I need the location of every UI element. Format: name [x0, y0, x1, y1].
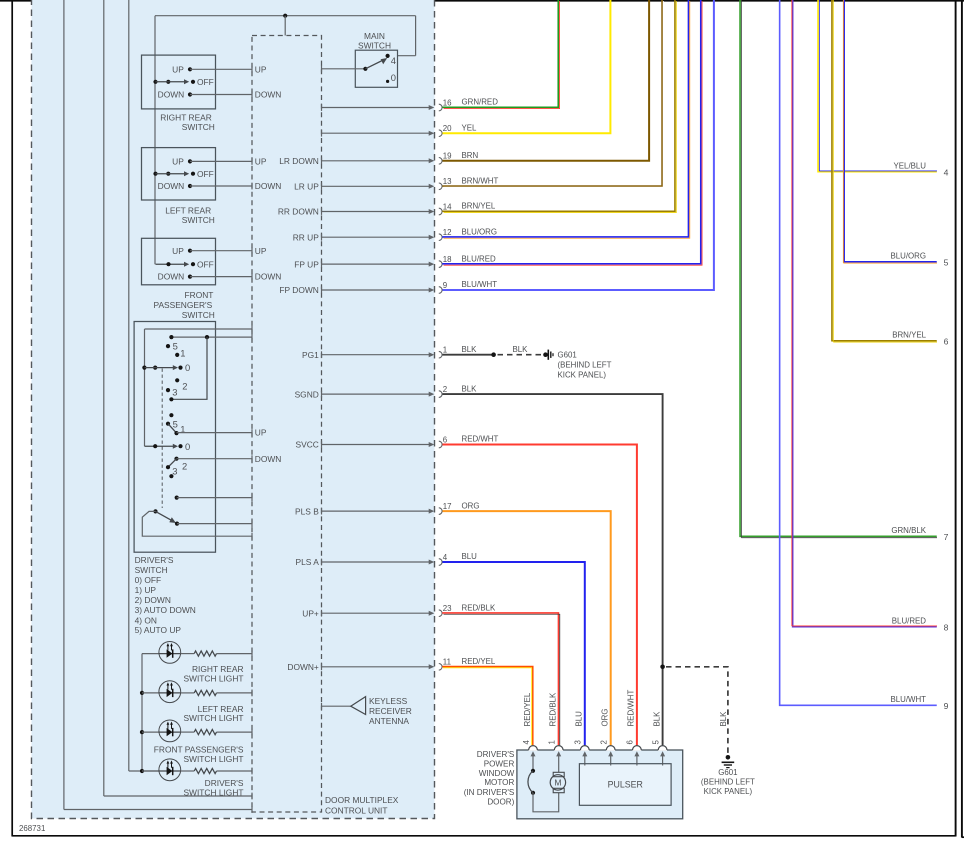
wire LED to resistor (left rear) [181, 692, 195, 694]
svg-text:18: 18 [443, 255, 452, 264]
svg-text:5: 5 [944, 258, 949, 268]
svg-text:FP UP: FP UP [294, 259, 319, 269]
svg-text:268731: 268731 [19, 824, 45, 833]
door multiplex control unit (dashed box) [252, 36, 322, 813]
svg-text:DOWN+: DOWN+ [287, 662, 319, 672]
svg-text:RED/BLK: RED/BLK [462, 603, 497, 612]
stack2 arm 2-3 [168, 459, 177, 468]
pulser toggle arm [156, 511, 173, 521]
svg-text:RED/WHT: RED/WHT [627, 690, 636, 727]
svg-text:PG1: PG1 [302, 350, 319, 360]
svg-text:DOWN: DOWN [158, 272, 185, 282]
main switch pivot dot [363, 67, 367, 71]
svg-text:BRN: BRN [462, 151, 479, 160]
stack1 wiper 0 [142, 366, 146, 370]
wire stub from top feed into control unit [284, 16, 286, 36]
svg-text:KEYLESS: KEYLESS [369, 696, 408, 706]
wire control unit to main switch [322, 68, 366, 70]
resistor right rear switch light [194, 651, 216, 656]
junction dot (pin 1) [491, 352, 496, 357]
svg-text:UP: UP [172, 64, 184, 74]
svg-text:11: 11 [443, 658, 451, 667]
svg-text:SWITCH: SWITCH [182, 215, 215, 225]
driver's power window motor box [517, 750, 683, 819]
bus wire B (second vertical to bottom pin) [103, 0, 105, 796]
LED right rear switch light [159, 642, 181, 664]
svg-text:BLU/WHT: BLU/WHT [890, 695, 926, 704]
wire YEL/BLU (connector 4) [818, 0, 937, 172]
stack2 bottom contact [169, 474, 173, 478]
keyless receiver antenna symbol [351, 697, 366, 715]
wire BLU/RED (connector 8) [793, 0, 937, 627]
svg-text:MOTOR: MOTOR [484, 778, 514, 787]
svg-text:9: 9 [944, 701, 949, 711]
front passenger's switch box [142, 238, 216, 284]
svg-text:RED/BLK: RED/BLK [549, 692, 558, 727]
svg-text:3) AUTO DOWN: 3) AUTO DOWN [135, 605, 196, 615]
svg-text:BLU/RED: BLU/RED [892, 617, 927, 626]
front passenger switch wiper [156, 263, 186, 265]
svg-text:2: 2 [182, 460, 187, 471]
bus wire C (third vertical to switch lights) [128, 0, 130, 771]
motor box entry arrow at x=558.7 [558, 754, 560, 766]
LED left rear switch light [159, 681, 181, 703]
motor box connector bump at x=610.7 [606, 746, 615, 751]
svg-text:G601: G601 [718, 768, 737, 777]
svg-text:SWITCH LIGHT: SWITCH LIGHT [183, 713, 243, 723]
svg-text:4: 4 [391, 55, 396, 66]
svg-text:ANTENNA: ANTENNA [369, 716, 409, 726]
svg-text:5: 5 [651, 740, 660, 745]
wire RED/YEL (pin 11) [442, 667, 533, 745]
motor box entry arrow at x=584.8 [584, 754, 586, 766]
wire into pulser at x=662.6 [662, 764, 664, 766]
svg-text:WINDOW: WINDOW [479, 769, 515, 778]
wire right-rear DOWN to control unit [190, 94, 252, 96]
svg-text:4: 4 [443, 553, 448, 562]
driver's switch feed wire (top) [145, 328, 253, 330]
motor M symbol [558, 766, 560, 773]
svg-text:FP DOWN: FP DOWN [279, 285, 318, 295]
stack2 contact 5 [166, 422, 170, 426]
svg-text:RED/WHT: RED/WHT [462, 435, 499, 444]
svg-text:BLU/WHT: BLU/WHT [462, 280, 498, 289]
svg-text:BRN/WHT: BRN/WHT [462, 177, 499, 186]
svg-text:SWITCH: SWITCH [358, 40, 391, 50]
motor box entry arrow at x=610.7 [610, 754, 612, 766]
driver's door boundary (blue dashed box) [32, 0, 435, 819]
svg-text:DOOR): DOOR) [487, 798, 514, 807]
ground G601 lower (behind left kick panel) [726, 755, 731, 760]
svg-text:RR UP: RR UP [293, 232, 319, 242]
svg-text:2: 2 [182, 381, 187, 392]
svg-text:BLU/ORG: BLU/ORG [462, 227, 498, 236]
pulser switch top contact wire [175, 496, 179, 500]
wire resistor to control unit (driver's) [217, 770, 253, 772]
wire LED to resistor (driver's) [181, 770, 195, 772]
wire BLU/WHT (connector 9) [780, 0, 937, 705]
pin 6 SVCC [321, 441, 323, 448]
top feed wire [155, 15, 416, 17]
svg-text:(BEHIND LEFT: (BEHIND LEFT [558, 361, 612, 370]
motor position switch wire [532, 766, 534, 771]
svg-text:RED/YEL: RED/YEL [523, 692, 532, 726]
svg-text:2) DOWN: 2) DOWN [135, 595, 171, 605]
svg-text:6: 6 [944, 337, 949, 347]
svg-text:BLK: BLK [719, 711, 728, 727]
motor box entry arrow at x=636.9 [636, 754, 638, 766]
svg-text:KICK PANEL): KICK PANEL) [704, 787, 753, 796]
driver's switch selector dashed line [161, 369, 163, 509]
wire BLK (pin 1) [443, 354, 494, 356]
bus wire A (left vertical to bottom pin) [63, 0, 65, 810]
wire front-passenger DOWN to control unit [190, 276, 252, 278]
svg-text:POWER: POWER [484, 759, 515, 768]
svg-text:PLS A: PLS A [296, 557, 320, 567]
svg-text:OFF: OFF [197, 169, 214, 179]
wire BRN/WHT (pin 13) [442, 0, 662, 186]
svg-text:20: 20 [443, 124, 452, 133]
svg-text:1: 1 [443, 346, 447, 355]
driver's switch box [134, 322, 215, 553]
pin 2 SGND [321, 391, 323, 398]
svg-text:UP: UP [255, 157, 267, 167]
svg-text:19: 19 [443, 152, 452, 161]
pulser toggle contact wire [175, 522, 179, 526]
wire resistor to control unit (left rear) [217, 692, 253, 694]
svg-text:RECEIVER: RECEIVER [369, 706, 412, 716]
pin 11 DOWN+ [321, 663, 323, 670]
svg-text:3: 3 [172, 387, 177, 398]
wire into pulser at x=610.7 [610, 764, 612, 766]
svg-text:(BEHIND LEFT: (BEHIND LEFT [701, 777, 755, 786]
svg-text:1: 1 [180, 347, 185, 358]
motor box entry arrow at x=662.6 [662, 754, 664, 766]
wire LED to resistor (front passenger's) [181, 731, 195, 733]
svg-text:LR DOWN: LR DOWN [279, 156, 319, 166]
svg-text:DOWN: DOWN [255, 90, 282, 100]
wire into pulser at x=636.9 [636, 764, 638, 766]
svg-text:RED/YEL: RED/YEL [462, 657, 496, 666]
stack1 contact 5 [166, 344, 170, 348]
stack2 top contact [169, 413, 173, 417]
wire YEL (pin 20) [443, 0, 611, 133]
pin 13 LR UP [321, 183, 323, 190]
svg-text:14: 14 [443, 202, 452, 211]
dashed BLK ground wire [498, 354, 544, 356]
svg-text:DOWN: DOWN [255, 454, 282, 464]
pulser box [579, 764, 671, 806]
resistor driver's switch light [194, 768, 216, 773]
svg-text:G601: G601 [558, 351, 577, 360]
svg-text:OFF: OFF [197, 259, 214, 269]
svg-text:5: 5 [173, 418, 178, 429]
svg-text:6: 6 [443, 435, 448, 444]
wire BRN (pin 19) [443, 0, 650, 161]
svg-text:(IN DRIVER'S: (IN DRIVER'S [464, 788, 515, 797]
dashed BLK wire to G601 [666, 667, 728, 754]
svg-text:DOWN: DOWN [255, 272, 282, 282]
svg-text:BLU/ORG: BLU/ORG [890, 252, 926, 261]
main switch contact 0 [386, 80, 389, 83]
junction dot on top feed [283, 14, 287, 18]
switch light bus vertical [141, 654, 143, 771]
motor box connector bump at x=533 [529, 746, 538, 751]
svg-text:2: 2 [443, 385, 447, 394]
svg-text:6: 6 [626, 740, 635, 745]
wire right-rear UP to control unit [190, 68, 252, 70]
wire BLU/WHT (pin 9) [443, 0, 714, 290]
driver's switch stack1 U-link [171, 337, 207, 399]
wire GRN/BLK (connector 7) [740, 0, 937, 536]
stack2 wiper 0 [145, 445, 175, 447]
pin 18 FP UP [321, 261, 323, 268]
svg-text:SWITCH: SWITCH [135, 565, 168, 575]
svg-text:M: M [554, 778, 561, 788]
wire RED/WHT (pin 6) [443, 445, 637, 746]
svg-text:SVCC: SVCC [296, 440, 319, 450]
pin 16 [321, 104, 323, 111]
border frame [0, 0, 964, 2]
wire BLU/RED (pin 18) [442, 0, 701, 264]
pulser toggle pivot [153, 509, 157, 513]
wire GRN/RED (pin 16) [442, 0, 558, 107]
motor box connector bump at x=636.9 [633, 746, 642, 751]
wire BLK (pin 2 SGND) [443, 394, 663, 745]
svg-text:YEL: YEL [462, 123, 478, 132]
svg-text:SWITCH: SWITCH [182, 122, 215, 132]
svg-text:KICK PANEL): KICK PANEL) [558, 371, 607, 380]
wire BRN/YEL (connector 6) [832, 0, 937, 341]
svg-text:PLS B: PLS B [295, 506, 319, 516]
pin 20 [321, 130, 323, 137]
svg-text:SWITCH LIGHT: SWITCH LIGHT [183, 754, 243, 764]
svg-text:1: 1 [548, 740, 557, 744]
svg-text:SWITCH LIGHT: SWITCH LIGHT [183, 788, 243, 798]
wire ORG (pin 17) [443, 511, 611, 745]
svg-text:17: 17 [443, 502, 452, 511]
resistor left rear switch light [194, 690, 216, 695]
left rear switch box [142, 148, 216, 200]
svg-text:BLU: BLU [462, 552, 478, 561]
svg-text:UP: UP [255, 246, 267, 256]
svg-text:0: 0 [185, 362, 190, 373]
right rear switch wiper [153, 80, 157, 84]
wire to left rear switch light [142, 692, 159, 694]
svg-text:GRN/BLK: GRN/BLK [891, 526, 926, 535]
wire BRN/YEL (pin 14) [442, 0, 675, 211]
svg-text:4: 4 [944, 168, 949, 178]
svg-text:UP: UP [255, 428, 267, 438]
stack2 arm 5-1 [168, 424, 177, 433]
svg-text:4: 4 [522, 740, 531, 745]
svg-text:0: 0 [185, 441, 190, 452]
svg-text:RIGHT REAR: RIGHT REAR [192, 664, 244, 674]
right rear switch box [142, 55, 216, 109]
svg-text:GRN/RED: GRN/RED [462, 98, 499, 107]
pin 4 PLS A [321, 559, 323, 566]
wire to driver's switch light [142, 770, 159, 772]
svg-text:DRIVER'S: DRIVER'S [477, 750, 515, 759]
svg-text:RIGHT REAR: RIGHT REAR [160, 112, 212, 122]
wire resistor to control unit (front passenger's) [217, 731, 253, 733]
svg-text:BRN/YEL: BRN/YEL [462, 202, 496, 211]
wire left-rear UP to control unit [190, 160, 252, 162]
pin 14 RR DOWN [321, 208, 323, 215]
pin 1 PG1 [321, 351, 323, 358]
svg-text:LEFT REAR: LEFT REAR [165, 206, 211, 216]
svg-text:UP: UP [172, 246, 184, 256]
svg-text:UP: UP [172, 157, 184, 167]
motor box connector bump at x=662.6 [658, 746, 667, 751]
wire resistor to control unit (right rear) [217, 653, 253, 655]
motor position switch return wire [533, 793, 559, 812]
stack1 contact 3 [166, 388, 170, 392]
resistor front passenger's switch light [194, 730, 216, 735]
svg-text:CONTROL UNIT: CONTROL UNIT [325, 806, 388, 816]
motor box entry arrow at x=533 [532, 754, 534, 766]
svg-text:1) UP: 1) UP [135, 585, 157, 595]
keyless receiver antenna wire [322, 705, 351, 707]
svg-text:LR UP: LR UP [294, 182, 319, 192]
pin 23 UP+ [321, 610, 323, 617]
svg-text:OFF: OFF [197, 77, 214, 87]
pin 12 RR UP [321, 234, 323, 241]
svg-text:0: 0 [391, 72, 396, 83]
wire left-rear DOWN to control unit [190, 185, 252, 187]
svg-text:16: 16 [443, 98, 452, 107]
svg-text:9: 9 [443, 281, 448, 290]
main switch contact 4 [386, 54, 390, 58]
motor box connector bump at x=558.7 [554, 746, 563, 751]
svg-text:8: 8 [944, 623, 949, 633]
svg-text:7: 7 [944, 532, 949, 542]
svg-text:SWITCH: SWITCH [182, 310, 215, 320]
svg-text:ORG: ORG [601, 709, 610, 727]
LED front passenger's switch light [159, 720, 181, 742]
svg-text:5: 5 [173, 341, 178, 352]
wire to front passenger's switch light [142, 731, 159, 733]
stack2 contact 1 / UP output [174, 431, 178, 435]
main switch box [355, 50, 397, 87]
svg-text:5) AUTO UP: 5) AUTO UP [135, 625, 182, 635]
svg-text:YEL/BLU: YEL/BLU [894, 162, 927, 171]
wire BLU/ORG (connector 5) [844, 0, 937, 262]
svg-text:DRIVER'S: DRIVER'S [135, 555, 174, 565]
motor position switch contact dots [531, 769, 535, 773]
svg-text:0) OFF: 0) OFF [135, 575, 162, 585]
stack2 contact 2 / DOWN output [174, 457, 178, 461]
svg-text:PASSENGER'S: PASSENGER'S [153, 300, 212, 310]
svg-text:UP: UP [255, 64, 267, 74]
svg-text:BLU: BLU [575, 711, 584, 727]
svg-text:FRONT: FRONT [185, 290, 214, 300]
motor box connector bump at x=584.8 [580, 746, 589, 751]
wire LED to resistor (right rear) [181, 653, 195, 655]
main switch arm [365, 60, 383, 69]
svg-text:12: 12 [443, 228, 452, 237]
svg-text:DOWN: DOWN [158, 90, 185, 100]
ground G601 (behind left kick panel) [543, 352, 548, 357]
svg-text:BLK: BLK [462, 384, 478, 393]
stack2 contact 3 [166, 465, 170, 469]
left rear switch wiper [153, 172, 157, 176]
stack1 contact 2 [175, 378, 179, 382]
wire front-passenger UP to control unit [190, 250, 252, 252]
junction dot on BLK wire [660, 665, 665, 670]
pin 19 LR DOWN [321, 157, 323, 164]
svg-text:BLK: BLK [462, 345, 478, 354]
svg-text:RR DOWN: RR DOWN [278, 207, 319, 217]
svg-text:DOWN: DOWN [255, 181, 282, 191]
svg-text:UP+: UP+ [302, 608, 319, 618]
motor position switch arc [528, 771, 533, 793]
svg-text:BLU/RED: BLU/RED [462, 254, 497, 263]
svg-text:3: 3 [574, 740, 583, 745]
svg-text:ORG: ORG [462, 501, 480, 510]
svg-text:SWITCH LIGHT: SWITCH LIGHT [183, 674, 243, 684]
pin 17 PLS B [321, 508, 323, 515]
wire into pulser at x=584.8 [584, 764, 586, 766]
svg-text:3: 3 [172, 466, 177, 477]
svg-text:BLK: BLK [652, 711, 661, 727]
svg-text:13: 13 [443, 177, 452, 186]
LED driver's switch light [159, 759, 181, 781]
pulser toggle feed wire [142, 511, 252, 536]
svg-text:DOOR MULTIPLEX: DOOR MULTIPLEX [325, 795, 399, 805]
svg-text:4) ON: 4) ON [135, 615, 157, 625]
svg-text:SGND: SGND [295, 389, 319, 399]
wire to right rear switch light [142, 653, 159, 655]
svg-text:DOWN: DOWN [158, 181, 185, 191]
wire BLU (pin 4) [443, 562, 585, 745]
pin 9 FP DOWN [321, 287, 323, 294]
svg-text:BLK: BLK [513, 345, 529, 354]
driver's switch stack1 output wire [171, 336, 252, 338]
svg-text:23: 23 [443, 604, 452, 613]
svg-text:2: 2 [600, 740, 609, 744]
wire RED/BLK (pin 23) [442, 613, 558, 745]
stack1 contact 1 [175, 353, 179, 357]
wire BLU/ORG (pin 12) [442, 0, 688, 237]
svg-text:BRN/YEL: BRN/YEL [892, 331, 926, 340]
svg-text:PULSER: PULSER [608, 780, 643, 790]
